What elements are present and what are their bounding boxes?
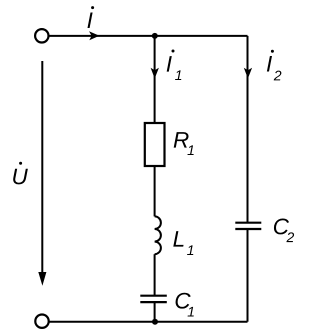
- capacitor C1 plate bottom: [140, 301, 167, 303]
- label I2: [267, 56, 272, 71]
- terminal top-left: [35, 29, 48, 42]
- wire resistor to inductor: [154, 166, 156, 216]
- inductor L1: [155, 216, 161, 254]
- wire bottom horizontal: [49, 321, 248, 323]
- label I2 (phasor dot): [271, 50, 274, 53]
- resistor R1: [145, 123, 165, 166]
- label R1 subscript: [187, 145, 193, 155]
- label I1 subscript: [175, 70, 181, 80]
- label L1 subscript: [187, 245, 193, 255]
- label C2: [274, 218, 289, 234]
- wire inductor to capacitor C1: [154, 254, 156, 296]
- arrow current I2: [244, 68, 252, 79]
- node top junction: [152, 33, 158, 39]
- label R1: [174, 132, 189, 147]
- label C1: [176, 293, 191, 309]
- arrow current I1: [151, 68, 159, 79]
- capacitor C2 plate top: [235, 222, 261, 224]
- label C1 subscript: [188, 307, 194, 317]
- wire right branch lower: [247, 229, 249, 322]
- wire right branch upper: [247, 36, 249, 223]
- label U (phasor dot): [19, 162, 22, 165]
- terminal bottom-left: [35, 315, 48, 328]
- node bottom junction: [152, 319, 158, 325]
- capacitor C1 plate top: [140, 295, 167, 297]
- label I1: [167, 56, 172, 71]
- arrow current I: [89, 31, 99, 40]
- arrow voltage U: [41, 61, 43, 274]
- label I: [87, 13, 92, 28]
- label C2 subscript: [286, 232, 294, 242]
- wire top horizontal: [49, 35, 248, 37]
- label I1 (phasor dot): [172, 50, 175, 53]
- label I (phasor dot): [91, 6, 94, 9]
- wire capacitor C1 to bottom: [154, 302, 156, 322]
- label I2 subscript: [274, 71, 282, 81]
- label L1: [173, 231, 183, 246]
- capacitor C2 plate bottom: [235, 228, 261, 230]
- wire middle branch upper: [154, 36, 156, 123]
- label U: [13, 169, 28, 185]
